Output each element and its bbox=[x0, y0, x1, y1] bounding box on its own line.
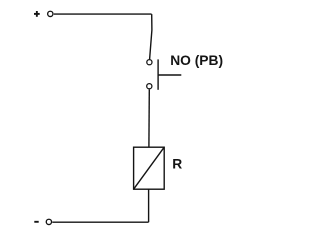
svg-text:R: R bbox=[172, 156, 182, 171]
relay coil R box bbox=[134, 147, 165, 189]
wire bottom horizontal bbox=[52, 221, 148, 223]
svg-text:NO (PB): NO (PB) bbox=[170, 53, 223, 68]
wire pushbutton to coil bbox=[148, 89, 150, 147]
terminal - bbox=[46, 219, 51, 224]
pushbutton NO (PB) bottom contact bbox=[147, 84, 152, 89]
wire coil to bottom bbox=[148, 189, 150, 222]
wire right vertical to pushbutton bbox=[150, 14, 152, 59]
relay coil R diagonal bbox=[134, 147, 165, 189]
pushbutton NO (PB) top contact bbox=[147, 60, 152, 65]
wire top horizontal bbox=[54, 13, 152, 15]
label + (positive supply) bbox=[34, 11, 40, 17]
label - (negative supply) bbox=[34, 221, 38, 223]
pushbutton NO (PB) actuator bbox=[158, 59, 181, 89]
terminal + bbox=[48, 11, 53, 16]
